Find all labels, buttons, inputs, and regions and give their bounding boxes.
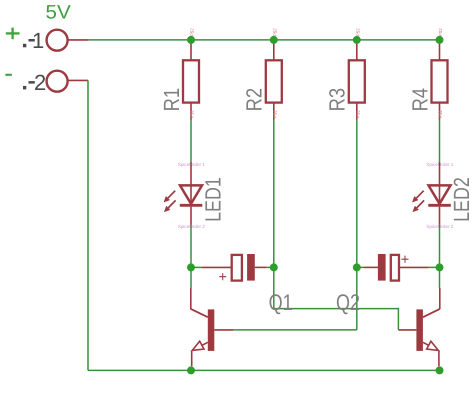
wire GND left vertical [87, 80, 89, 370]
svg-text:Q2: Q2 [336, 290, 360, 315]
svg-text:P$2: P$2 [438, 28, 443, 37]
svg-text:R3: R3 [325, 88, 350, 112]
label .-2 [23, 86, 26, 90]
junction node D [436, 263, 444, 271]
wire cross coupling to Q2 base [274, 309, 399, 330]
label - [5, 74, 11, 76]
wire 5V top rail [89, 39, 440, 41]
wire node B down [273, 267, 275, 308]
wire R3 down to node C [356, 120, 358, 264]
junction node A [187, 263, 195, 271]
svg-text:P$1: P$1 [190, 109, 195, 118]
transistor Q1 [191, 288, 233, 366]
wire R4 to LED2 [439, 120, 441, 163]
svg-text:1: 1 [32, 28, 44, 53]
resistor R2 [242, 28, 282, 120]
label .-1 [23, 44, 26, 48]
LED LED2 [412, 162, 474, 229]
svg-text:LED2: LED2 [449, 177, 474, 222]
wire node D to Q2 collector [439, 267, 441, 288]
wire LED2 to node D [439, 227, 441, 264]
svg-text:P$1: P$1 [438, 109, 443, 118]
junction node rail R4 [436, 36, 444, 44]
svg-text:R1: R1 [159, 88, 184, 112]
wire GND bottom rail [88, 369, 440, 371]
capacitor C2 [357, 252, 440, 281]
LED LED1 [164, 162, 226, 229]
connector pin 2 [47, 71, 88, 92]
junction node B [270, 263, 278, 271]
svg-text:P$1: P$1 [272, 109, 277, 118]
svg-text:+: + [401, 252, 409, 268]
wire R2 down to node B [273, 120, 275, 264]
resistor R4 [407, 28, 447, 120]
connector pin 1 [47, 30, 89, 51]
svg-text:P$1: P$1 [355, 109, 360, 118]
svg-text:5V: 5V [46, 2, 71, 24]
svg-text:LED1: LED1 [201, 177, 226, 222]
svg-text:P$2: P$2 [272, 28, 277, 37]
svg-text:Q1: Q1 [269, 290, 293, 315]
junction node Q1 emitter [187, 366, 195, 374]
junction node Q2 emitter [436, 366, 444, 374]
junction node rail R2 [270, 36, 278, 44]
wire node A to Q1 collector [190, 267, 192, 288]
junction node rail R1 [187, 36, 195, 44]
wire node C down [356, 267, 358, 330]
svg-text:2: 2 [34, 70, 46, 95]
svg-text:P$2: P$2 [190, 28, 195, 37]
svg-text:R2: R2 [242, 88, 267, 112]
junction node rail R3 [353, 36, 361, 44]
svg-text:+: + [219, 270, 227, 286]
resistor R3 [325, 28, 365, 120]
wire LED1 to node A [190, 227, 192, 264]
svg-text:P$2: P$2 [355, 28, 360, 37]
svg-text:R4: R4 [407, 88, 432, 112]
wire R1 to LED1 [190, 120, 192, 163]
junction node C [353, 263, 361, 271]
capacitor C1 [191, 254, 274, 286]
resistor R1 [159, 28, 199, 120]
transistor Q2 [398, 288, 439, 366]
label + [6, 28, 20, 40]
wire cross coupling to Q1 base [233, 329, 357, 331]
